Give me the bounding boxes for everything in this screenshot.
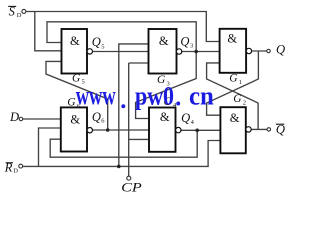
svg-text:Q: Q [181,111,190,125]
svg-text:&: & [230,111,240,125]
node Q3 label [180,35,193,50]
wire: D input to G6 in1 [23,118,61,120]
svg-text:Q: Q [92,35,101,49]
svg-text:2: 2 [243,99,246,106]
wire: Q6 output to G4 in2 [92,129,149,131]
nand gate G4 [149,108,181,152]
node Q5 label [92,35,105,50]
output terminal Q [267,42,285,56]
nand gate G2 [220,107,251,153]
junction dot Q4 node [195,129,199,133]
junction dot R_D rail node [117,165,121,169]
svg-text:1: 1 [239,79,242,86]
label G2 [233,93,246,106]
wire: S_D branch to G5 in2 [35,12,62,51]
svg-text:D: D [9,110,19,124]
svg-text:pw0: pw0 [135,81,174,110]
wire: Q4 output to G2 in2 [181,129,220,131]
wire: Qbar output to terminal [251,128,267,130]
output terminal Qbar [267,122,285,136]
watermark www. pw0. cn [76,81,215,111]
nand gate G1 [220,29,252,73]
wire: Q4 down to rail M to G6 in3 [50,130,197,157]
label G4 [164,96,178,109]
nand gate G5 [62,29,93,74]
svg-text:www: www [76,81,116,110]
label G3 [157,74,170,87]
wire: Q feedback diagonal to G2 in1 [207,51,259,115]
node Q6 label [92,110,105,125]
wire: Q output to terminal [251,50,267,52]
junction dot Q6 node [106,128,110,132]
svg-text:Q: Q [92,110,101,124]
svg-text:D: D [17,12,22,19]
svg-text:Q: Q [276,42,285,56]
svg-text:D: D [13,168,18,175]
wire: Q3 output to G1 in2 [182,51,220,53]
wire: CP to G3 in3 [129,62,149,64]
svg-text:cn: cn [189,82,214,111]
wire: CP vertical [128,63,130,176]
wire: Q3 diagonal down to G4 in1 [136,52,197,119]
wire: R_D bottom rail [23,141,221,167]
input terminal D [9,110,23,124]
svg-text:&: & [227,32,237,46]
svg-text:G: G [233,93,242,105]
wire: S_D net top rail [26,12,220,42]
wire: CP to G4 in3 [129,138,149,140]
svg-text:3: 3 [190,43,193,50]
input terminal R_D [4,160,23,174]
node Q4 label [181,111,195,126]
nand gate G6 [61,107,93,151]
wire: R_D branch up to G3 in1 [119,44,149,166]
svg-text:CP: CP [121,181,142,195]
label G5 [72,72,85,85]
svg-text:&: & [160,110,170,124]
wire: Q3 feedback up rail to G5 in1 [47,22,196,52]
svg-text:&: & [70,113,80,127]
input terminal CP [121,176,142,194]
wire: Q6 riser and diagonal to G5 in3 [46,61,108,130]
label G1 [229,73,242,86]
wire: R_D branch to G6 in2 [39,128,61,166]
svg-text:&: & [159,34,169,48]
svg-text:5: 5 [101,43,104,50]
svg-text:&: & [70,34,80,48]
svg-text:G: G [229,73,238,85]
junction dot Q3 node [194,50,198,54]
wire: Q5 output to G3 in2 [92,51,148,53]
svg-text:Q: Q [180,35,189,49]
wire: Qbar feedback diagonal to G1 in3 [207,63,259,129]
input terminal S_D [8,4,26,19]
nand gate G3 [149,29,182,74]
label G6 [67,97,81,110]
